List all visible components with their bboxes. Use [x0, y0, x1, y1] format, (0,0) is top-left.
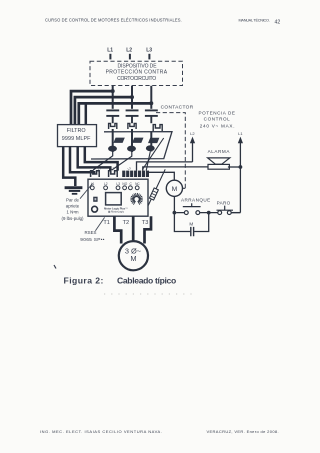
svg-text:9999 MLPF: 9999 MLPF	[62, 136, 91, 142]
relay terminal bracket 2	[109, 171, 118, 177]
relay window shade 3	[148, 138, 159, 143]
svg-text:NO: NO	[122, 182, 127, 186]
node coil junction	[173, 211, 177, 215]
wire bottom row	[176, 212, 240, 214]
M aux contact plates	[191, 227, 194, 236]
wire tap3 to filter	[79, 103, 152, 124]
wire phase3 through block	[150, 131, 152, 151]
svg-text:M: M	[172, 186, 178, 193]
panel dial	[130, 193, 143, 205]
svg-text:(9 lbs-pulg): (9 lbs-pulg)	[62, 216, 84, 221]
svg-text:L2: L2	[190, 131, 195, 136]
svg-text:42: 42	[275, 19, 281, 25]
panel display	[106, 193, 122, 205]
ground	[65, 188, 83, 194]
wire coil down	[173, 196, 175, 212]
svg-text:L3: L3	[146, 47, 152, 53]
svg-text:M: M	[130, 254, 136, 263]
svg-text:T1: T1	[103, 220, 110, 226]
panel reset knob	[92, 206, 98, 212]
svg-text:Cableado típico: Cableado típico	[117, 275, 176, 285]
panel test button	[93, 197, 97, 202]
svg-text:L1: L1	[107, 47, 113, 53]
wire tick under L3	[148, 54, 150, 60]
svg-text:L3: L3	[127, 166, 132, 171]
ARRANQUE actuator	[183, 203, 201, 206]
overload relay front panel U1	[88, 179, 148, 216]
wire filter lead2 to relay L1	[70, 147, 95, 173]
pushbutton ARRANQUE contacts	[184, 211, 188, 215]
svg-text:T3: T3	[142, 220, 149, 226]
overload relay 3D block outline	[91, 132, 172, 159]
svg-text:CURSO DE CONTROL DE MOTORES EL: CURSO DE CONTROL DE MOTORES ELÉCTRICOS I…	[45, 18, 182, 23]
relay terminal bracket 1	[91, 171, 100, 177]
wire T1 to motor	[114, 216, 121, 243]
svg-text:MANUAL TÉCNICO.: MANUAL TÉCNICO.	[239, 17, 270, 22]
wire T2 to motor	[132, 216, 135, 241]
wire A relay to L2	[137, 162, 193, 171]
wire L1 arrow rail	[239, 142, 241, 213]
panel terminal labels	[91, 182, 141, 186]
leader catalog	[95, 217, 104, 230]
svg-text:CONTROL: CONTROL	[204, 117, 231, 122]
svg-text:ARRANQUE: ARRANQUE	[181, 197, 211, 202]
node phase1 tap	[111, 89, 115, 93]
contactor terminal clamp 2	[128, 123, 136, 129]
svg-text:9065 SP••: 9065 SP••	[80, 237, 104, 243]
filter lead to ground	[63, 147, 75, 186]
svg-text:RSES: RSES	[85, 230, 97, 235]
svg-text:T2: T2	[123, 220, 130, 226]
svg-text:L3: L3	[116, 182, 120, 186]
relay window shade 1	[113, 138, 124, 143]
wire oval2 to panel terminal L2	[112, 152, 132, 170]
filter box FILTRO 9999 MLPF	[58, 125, 97, 147]
svg-text:POTENCIA DE: POTENCIA DE	[199, 111, 236, 116]
wire rail to PARO	[231, 212, 240, 214]
M aux contact branch	[174, 213, 208, 232]
svg-text:L2: L2	[104, 182, 108, 186]
svg-text:ALARMA: ALARMA	[208, 149, 231, 154]
control power text	[199, 111, 236, 129]
wire phase1 through block	[112, 129, 114, 152]
contactor terminal clamp 3	[153, 125, 162, 132]
svg-text:CORTOCIRCUITO: CORTOCIRCUITO	[117, 76, 156, 82]
node row junction	[207, 211, 211, 215]
faint dotted line	[104, 293, 192, 295]
wire L2 arrow	[192, 142, 194, 162]
svg-text:Par de: Par de	[66, 198, 79, 203]
svg-text:▣ MotorLogic: ▣ MotorLogic	[108, 210, 125, 214]
svg-text:L2: L2	[126, 47, 132, 53]
svg-text:CONTACTOR: CONTACTOR	[161, 104, 194, 110]
svg-text:PROTECCIÓN CONTRA: PROTECCIÓN CONTRA	[106, 69, 168, 76]
wire C relay to coil	[147, 172, 175, 180]
wire coil to dashed boundary	[183, 187, 186, 189]
wire tick under L1	[109, 54, 111, 60]
wire oval1 to panel terminal L1	[93, 152, 113, 170]
wire aux to relay diagonal	[148, 169, 165, 205]
relay hole oval 2	[127, 146, 136, 152]
wire alarm to rail	[228, 166, 241, 168]
wire phase 3 vertical	[150, 86, 152, 109]
wire tick under L2	[129, 54, 131, 60]
relay window shade 2	[132, 138, 143, 143]
stray mark	[54, 265, 56, 269]
leader torque	[80, 183, 93, 198]
wire filter 4th lead	[85, 103, 88, 124]
svg-text:240 V~ MAX.: 240 V~ MAX.	[200, 123, 236, 128]
svg-text:FILTRO: FILTRO	[67, 128, 86, 134]
wire tap1 to filter	[71, 91, 113, 125]
protection box text	[106, 63, 168, 82]
svg-text:apriete: apriete	[66, 204, 80, 209]
wire phase 2 vertical	[131, 86, 133, 109]
svg-text:ING. MEC. ELECT. ISAIAS CECILI: ING. MEC. ELECT. ISAIAS CECILIO VENTURA …	[40, 429, 162, 434]
contactor coil M	[166, 180, 182, 196]
wire B relay to alarm	[143, 167, 209, 171]
node phase3 tap	[149, 101, 153, 105]
node alarm rail	[239, 165, 243, 169]
wire phase2 through block	[131, 129, 133, 152]
relay terminal strip NO C NC	[122, 171, 149, 177]
svg-text:L1: L1	[238, 131, 243, 136]
node phase2 tap	[130, 95, 134, 99]
contactor contact 3	[145, 110, 158, 123]
wire tap2 to filter	[75, 97, 132, 125]
wire oval3 to panel terminal L3	[146, 152, 150, 171]
svg-text:VERACRUZ, VER. Enero de 2008.: VERACRUZ, VER. Enero de 2008.	[207, 429, 279, 434]
contactor dashed boundary	[156, 113, 185, 188]
contactor terminal clamp 1	[109, 123, 117, 129]
contactor contact 1	[106, 110, 119, 123]
PARO bar NC	[217, 206, 234, 211]
alarm horn	[208, 158, 230, 164]
wire filter lead3 to relay L2	[78, 147, 111, 171]
wire filter lead4 to relay terminal	[85, 147, 118, 171]
svg-text:Figura 2:: Figura 2:	[64, 275, 104, 285]
wire contactor aux diagonal	[142, 138, 163, 170]
svg-text:DISPOSITIVO DE: DISPOSITIVO DE	[118, 63, 158, 69]
svg-text:1 N•m: 1 N•m	[66, 210, 78, 215]
short-circuit protection dashed box	[90, 61, 183, 85]
wire phase 1 vertical	[112, 86, 114, 109]
panel terminal screws	[90, 186, 139, 190]
svg-text:PARO: PARO	[217, 201, 231, 206]
motor M 3-phase	[119, 241, 148, 270]
note catalog text	[80, 230, 104, 243]
svg-text:NC: NC	[135, 182, 140, 186]
note torque text	[62, 198, 84, 221]
relay hole oval 1	[108, 146, 117, 152]
wire T3 to motor	[145, 216, 152, 243]
relay hole oval 3	[146, 145, 155, 151]
svg-text:M: M	[189, 222, 193, 227]
alarm body	[208, 164, 229, 169]
contactor contact 2	[126, 110, 139, 123]
pushbutton PARO contacts	[218, 211, 222, 215]
cable marker on diagonal	[149, 188, 158, 200]
